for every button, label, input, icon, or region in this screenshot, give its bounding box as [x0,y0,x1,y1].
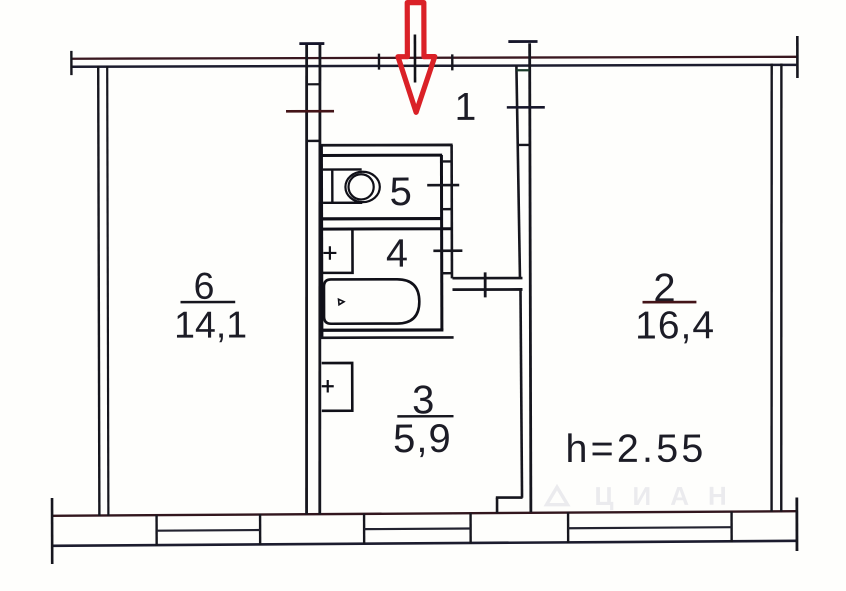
svg-text:14,1: 14,1 [174,303,247,345]
right pillar top cap [508,40,537,43]
toilet bowl inner circle [348,174,373,199]
window W2 hall: right divider [469,513,471,543]
window W1 room6: left divider [155,515,157,546]
bottom notch box top edge [496,496,523,499]
left pillar rung [306,83,320,85]
room3 sink box [322,363,353,411]
svg-text:5,9: 5,9 [393,417,452,461]
top wall inner line [71,65,796,67]
svg-text:h=2.55: h=2.55 [565,427,706,471]
bathtub drain mark [339,299,345,305]
entrance door leaf line [414,35,417,83]
room4 washbasin cross [323,246,336,260]
right pillar upper rung [516,69,529,71]
bottom wall outer (lower) line [52,541,798,546]
bottom wall left end tick [51,498,54,564]
door lintel tick [484,272,487,297]
window W3 room2: mid sill line [568,527,732,528]
red arrow [398,3,435,113]
bath block outer right wall [450,145,453,278]
right pillar door tick [507,106,545,109]
window W1 room6: mid sill line [157,529,261,532]
window W3 room2: right divider [730,512,732,543]
bathtub [324,279,419,324]
bath block outer bottom line [320,336,454,339]
wall room2 right rail [530,43,531,512]
room5 box bottom line [320,217,442,221]
room5 box top line [320,154,442,157]
top wall right end tick [796,36,799,78]
room4 box bottom line [320,328,444,332]
bottom notch box left edge [496,498,499,514]
top wall outer line [71,57,797,59]
right pillar lower rung [517,144,530,146]
right exterior wall inner line [770,64,772,512]
left pillar top cap [299,42,324,45]
room3 sink cross [322,380,334,392]
entrance door tick left [378,54,380,70]
bath block right rung c [442,272,452,274]
bathroom block top outer line [320,144,452,147]
wall room2 left rail lower [520,290,522,498]
room4 door tick [433,249,462,252]
label room 3 fraction line [397,415,453,418]
room5/room4 box left edge [320,145,324,337]
toilet bowl outer ellipse [345,172,379,202]
window W2 hall: left divider [363,514,365,544]
door lintel room2 lower line [452,288,522,291]
bath block right rung a [442,160,452,162]
bottom wall inner (upper) line [52,511,798,516]
room5 door tick [427,184,459,187]
room4 box top line [320,227,452,230]
svg-text:6: 6 [193,265,214,307]
left exterior wall outer line [98,66,99,516]
svg-text:16,4: 16,4 [635,304,715,347]
toilet tank rect [323,169,362,202]
svg-text:ЦИАН: ЦИАН [594,481,745,511]
wall room2 left rail upper [516,66,520,278]
bottom wall right end tick [795,498,798,551]
label room 6 fraction line [181,301,236,304]
top wall left end tick [70,51,72,75]
label room 2 fraction line [643,301,697,304]
svg-text:1: 1 [455,86,477,129]
svg-text:4: 4 [386,232,408,276]
wall room6/hall right rail [319,44,322,515]
left pillar door tick (dark red) [286,110,334,113]
svg-text:5: 5 [390,170,412,214]
window W3 room2: left divider [567,512,569,543]
wall room6/hall left rail [305,44,308,515]
door lintel room2 upper line [452,277,522,280]
hall wall rung above bath block [306,140,320,142]
window W2 hall: mid sill line [364,527,471,530]
room5 box right edge [440,155,443,330]
watermark logo triangle [547,487,568,505]
window W1 room6: right divider [259,514,261,545]
entrance door tick right [451,54,453,70]
right exterior wall outer line [780,64,782,512]
left exterior wall inner line [107,66,108,516]
room4 washbasin box [322,229,353,273]
bath block right rung b [442,208,452,210]
